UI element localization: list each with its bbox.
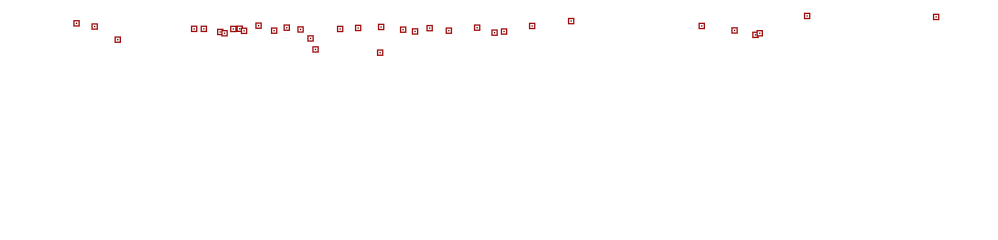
data point marker m8 at (244.05,30.85) xyxy=(241,28,246,33)
data point marker m14 at (315.55,49.45) xyxy=(313,47,318,52)
data point marker m28 at (701.75,25.95) xyxy=(699,23,704,28)
data point marker m13 at (310.55,38.45) xyxy=(308,36,313,41)
data point marker m9 at (258.55,25.65) xyxy=(256,23,261,28)
data point marker m5b at (224.55,33.25) xyxy=(222,31,227,36)
data point marker m34 at (117.75,39.65) xyxy=(115,37,120,42)
data point marker m1 at (76.55,23.35) xyxy=(74,21,79,26)
data point marker m6 at (233.35,28.95) xyxy=(231,26,236,31)
data point marker m27 at (571.15,21.1) xyxy=(569,19,574,24)
data point marker m32 at (807.15,15.95) xyxy=(805,13,810,18)
data point marker m26 at (532.15,25.95) xyxy=(530,23,535,28)
data point marker m22 at (448.85,30.65) xyxy=(446,28,451,33)
data point marker m17 at (381.15,26.95) xyxy=(379,24,384,29)
data point marker m21 at (429.65,28.15) xyxy=(427,26,432,31)
data point marker m10 at (274.15,30.65) xyxy=(272,28,277,33)
data point marker m30 at (755.45,34.85) xyxy=(753,32,758,37)
data point marker m20 at (415.05,31.45) xyxy=(412,29,417,34)
scatter chart strip: dark-red open-square point markers with centre dots on white xyxy=(0,0,998,103)
data point marker m31 at (759.75,33.25) xyxy=(757,31,762,36)
data point marker m16 at (358.15,27.95) xyxy=(356,25,361,30)
data point marker m5a at (220.25,31.95) xyxy=(218,29,223,34)
data point marker m33 at (936.15,16.95) xyxy=(934,14,939,19)
data point marker m4 at (203.85,28.85) xyxy=(201,26,206,31)
data point marker m24 at (494.55,32.65) xyxy=(492,30,497,35)
data point marker m12 at (300.55,29.45) xyxy=(298,27,303,32)
data point marker m11 at (286.75,27.65) xyxy=(284,25,289,30)
data point marker m7 at (239.75,28.75) xyxy=(237,26,242,31)
data point marker m23 at (477.15,27.65) xyxy=(475,25,480,30)
data point marker m29 at (734.55,30.45) xyxy=(732,28,737,33)
data point marker m19 at (403.15,29.65) xyxy=(401,27,406,32)
data point marker m2 at (94.65,26.55) xyxy=(92,24,97,29)
data point marker m25 at (504.05,31.55) xyxy=(501,29,506,34)
data point marker m15 at (340.15,28.95) xyxy=(338,26,343,31)
data point marker m18 at (380.15,52.65) xyxy=(378,50,383,55)
data point marker m3 at (194.15,28.85) xyxy=(192,26,197,31)
